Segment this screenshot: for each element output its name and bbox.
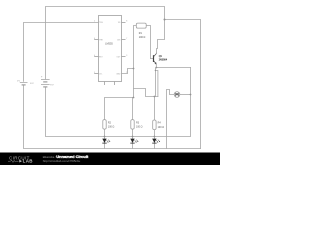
pin stub U1 left 2 [94,39,98,41]
wire LED3 cathode stub [132,143,134,148]
resistor R4 [153,120,165,130]
LED LED2 [130,139,138,144]
junction LED3 anode bus node [154,136,156,138]
pin stub U1 left 4 [94,73,98,75]
wire R3 bottom to LED [132,129,134,139]
wire R4 top [153,97,155,121]
battery BAT1 [41,76,54,87]
svg-text:TRG: TRG [99,22,103,24]
footer bar [0,153,220,166]
svg-text:http://circuitlab.com/c7t65nbu: http://circuitlab.com/c7t65nbu [43,159,81,163]
wire jog right to R4 area [134,89,158,97]
svg-text:100 Ω: 100 Ω [108,126,115,129]
wire V1 bottom bus [24,86,201,149]
wire BAT1 bottom bus [46,68,191,137]
wire R3 top [132,98,134,120]
svg-text:GND: GND [116,74,121,76]
LED LED3 [152,139,160,144]
junction top rail node [164,19,166,21]
svg-text:2N3904: 2N3904 [159,59,168,62]
pin stub U1 bottom 2 [114,82,116,86]
svg-text:100 Ω: 100 Ω [158,126,165,129]
pin stub U1 bottom 1 [104,82,106,86]
wire LED2 cathode stub [104,143,106,148]
svg-text:100 Ω: 100 Ω [139,36,146,39]
wire emitter horizontal [156,67,190,69]
svg-text:6: 6 [94,38,95,40]
junction emitter node [156,67,158,69]
CircuitLab logo [8,155,33,163]
junction LED2 anode bus node [132,136,134,138]
pin stub U1 right 2 [122,39,126,41]
svg-text:2: 2 [94,21,95,23]
pin stub U1 left 3 [94,56,98,58]
svg-text:LAB: LAB [23,159,34,164]
wire base [151,58,154,60]
wire emitter down pair left [154,68,156,97]
pin stub U1 right 3 [122,56,126,58]
svg-text:8 V: 8 V [30,83,34,85]
wire V1 top to IC pin [24,23,99,82]
transistor Q1 [154,52,157,67]
wire collector step from top junction [157,20,165,53]
svg-text:LM555: LM555 [105,43,113,46]
svg-text:4: 4 [94,55,95,57]
svg-text:3: 3 [126,55,127,57]
resistor R2 [103,120,115,130]
pin stub U1 right 1 [122,22,126,24]
wire motor right [180,94,191,96]
wire R2 bottom to LED [104,129,106,139]
svg-text:100 Ω: 100 Ω [136,126,143,129]
wire R1 loop top [134,26,151,69]
wire LED4 cathode stub [153,143,155,148]
junction motor right node [190,94,192,96]
resistor R3 [131,120,143,130]
junction R4 top node [154,96,156,98]
svg-text:1: 1 [126,72,127,74]
junction R2 R3 node [133,97,135,99]
wire emitter down pair right [155,71,158,97]
svg-text:7: 7 [126,38,127,40]
motor M1 [174,92,180,98]
wire second rail right [165,20,201,149]
svg-text:5: 5 [94,72,95,74]
wire motor left staircase [167,90,175,149]
IC U1 LM555 body [99,16,122,82]
battery V1 [17,81,34,86]
LED LED1 [102,139,110,144]
wire node down to R2 R3 junction [133,69,135,98]
junction emitter jog node [155,70,156,71]
svg-text:9 V: 9 V [50,84,54,86]
resistor R1 [136,23,146,39]
junction LED1 anode bus node [104,136,106,138]
wire IC pin jog to R1 loop [121,69,133,74]
wire R4 bottom to LED [153,130,155,139]
svg-text:8: 8 [126,21,127,23]
wire top rail from BAT1 plus to corner [46,7,165,79]
junction R1 loop left node [133,68,135,70]
wire to R2 top [105,98,134,120]
svg-text:CTL: CTL [99,74,102,76]
